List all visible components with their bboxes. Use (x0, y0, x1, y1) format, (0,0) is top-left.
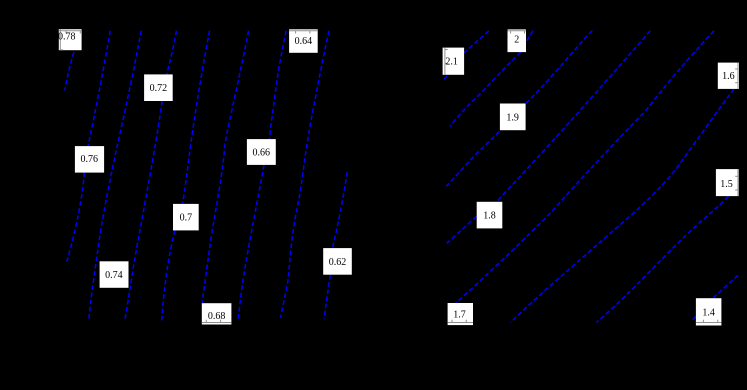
label box 0.70 (173, 204, 199, 231)
right plot contour 1.7 (456, 31, 715, 304)
left plot contour 0.76 lower (66, 173, 84, 264)
label box 1.7 (448, 303, 473, 325)
bottom spine over 0.68 box (202, 322, 232, 324)
right plot contour 1.8 upper (497, 31, 651, 202)
label box 1.6 (718, 63, 739, 89)
left plot contour 0.68 (202, 31, 248, 304)
minor ticks top spine in 2 box (510, 31, 512, 34)
minor tick top spine in 0.78 box (65, 31, 67, 34)
right plot contour 1.6 below label (511, 89, 735, 322)
top spine over 2 box (508, 30, 527, 32)
minor ticks bottom spine in 1.7 box (451, 320, 453, 323)
label box 0.78 (59, 29, 82, 50)
svg-text:2.1: 2.1 (445, 57, 458, 68)
right plot contour 2.0 lower (450, 52, 521, 127)
right spine over 1.6 box (737, 63, 739, 89)
label box 1.4 (696, 298, 722, 325)
svg-text:1.5: 1.5 (720, 179, 733, 190)
right plot contour 1.5 below label (597, 196, 729, 322)
left spine over 2.1 box (444, 48, 446, 75)
top spine over 0.64 box (289, 30, 318, 32)
right spine over 1.5 box (737, 169, 739, 196)
left plot contour 0.72 upper (167, 31, 177, 75)
right plot contour 1.4 stub left of label (692, 316, 696, 320)
svg-text:2: 2 (514, 34, 519, 45)
svg-text:0.62: 0.62 (329, 257, 347, 268)
svg-text:0.7: 0.7 (180, 213, 193, 224)
right plot contour 1.9 upper (526, 31, 593, 104)
minor tick top spine in 0.78 box (79, 31, 81, 34)
left plot contour 0.78 stub below its label (65, 52, 74, 90)
label box 1.5 (716, 169, 739, 196)
right plot contour 1.8 lower (445, 216, 477, 245)
svg-text:1.7: 1.7 (453, 310, 466, 321)
svg-text:1.4: 1.4 (702, 308, 715, 319)
label box 0.74 (100, 261, 129, 288)
axes spines & ticks visible across the white boxes (59, 29, 738, 322)
left plot contour 0.72 lower (125, 101, 162, 321)
label box 0.64 (289, 29, 318, 53)
left plot contour 0.62 upper (333, 172, 348, 248)
svg-text:1.9: 1.9 (506, 113, 519, 124)
minor ticks right spine in 1.6 box (735, 68, 738, 70)
svg-text:1.6: 1.6 (722, 71, 735, 82)
right plot contour 1.9 lower (446, 132, 499, 187)
left plot contour 0.66 upper (270, 31, 287, 139)
left plot contour 0.66 lower (238, 165, 264, 321)
label box 0.76 (75, 146, 104, 173)
label box 0.62 (323, 248, 352, 275)
left plot contour 0.76 upper (88, 31, 110, 146)
left spine over 0.78 box (59, 29, 61, 50)
right plot contour 2.0 upper stub (526, 31, 533, 44)
minor ticks bottom spine in 0.68 box (205, 320, 207, 323)
svg-text:0.78: 0.78 (58, 31, 76, 42)
label box 0.68 (202, 303, 232, 324)
left plot contour 0.70 upper (183, 31, 210, 204)
right plot contour 1.4 upper (713, 275, 739, 298)
right plot contour 2.1 stub below label (444, 76, 447, 79)
minor ticks right spine in 1.5 box (735, 175, 738, 177)
svg-text:0.74: 0.74 (105, 270, 123, 281)
svg-text:0.68: 0.68 (208, 311, 226, 322)
label box 0.66 (247, 139, 276, 165)
left plot contour 0.74 (89, 31, 141, 321)
svg-text:0.72: 0.72 (150, 83, 168, 94)
svg-text:0.76: 0.76 (81, 154, 99, 165)
right plot contour 2.1 (464, 31, 488, 53)
minor ticks left spine in 2.1 box (445, 49, 448, 51)
svg-text:0.66: 0.66 (253, 148, 271, 159)
bottom spine over 1.7 box (448, 322, 473, 324)
label box 0.72 (144, 74, 173, 101)
left plot contour 0.70 lower (162, 230, 175, 320)
label box 1.9 (500, 104, 526, 131)
contour label boxes (white) (59, 29, 739, 325)
contour label text (58, 31, 735, 322)
top spine over 0.78 box (59, 30, 82, 32)
label box 1.8 (477, 202, 503, 229)
minor ticks top spine in 0.64 box (295, 31, 297, 34)
label box 2.1 (443, 48, 465, 75)
minor ticks bottom spine in 1.4 box (702, 320, 704, 323)
left plot unlabeled contour (281, 31, 329, 318)
bottom spine over 1.4 box (696, 322, 722, 324)
svg-text:0.64: 0.64 (295, 36, 313, 47)
minor tick left spine in 0.78 box (60, 49, 63, 51)
svg-text:1.8: 1.8 (483, 211, 496, 222)
left plot contour 0.62 lower (324, 275, 330, 319)
label box 2 (508, 29, 527, 52)
